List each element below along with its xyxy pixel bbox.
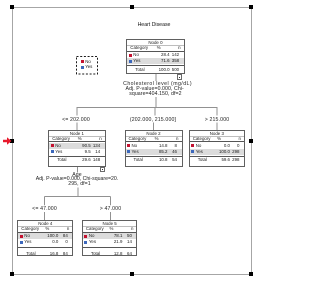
tree title: [114, 22, 194, 28]
wire: stub to node3 top: [216, 123, 218, 131]
handle middle-left: [10, 139, 14, 143]
wire: node1 drop: [77, 167, 79, 173]
branch label node1: [46, 117, 106, 123]
node 3: [189, 130, 245, 167]
wire: stub above label node2: [154, 108, 156, 116]
node 4: [17, 220, 73, 256]
split variable text: Age: [27, 173, 127, 187]
handle middle-right: [249, 139, 253, 143]
wire: stub above label node4: [44, 197, 46, 206]
wire: stub above label node1: [76, 108, 78, 116]
handle bottom-right: [249, 272, 253, 276]
node 0 collapse button: [177, 74, 183, 80]
handle top-right: [249, 5, 253, 9]
handle top-middle: [130, 5, 134, 9]
handle bottom-middle: [130, 272, 134, 276]
legend swatch No: [81, 60, 84, 63]
node 1 collapse button: [100, 167, 106, 173]
wire: stub to node1 top: [76, 123, 78, 131]
wire: stub above label node3: [216, 108, 218, 116]
legend swatch Yes: [81, 66, 84, 69]
wire: stub above label node5: [110, 197, 112, 206]
wire: stub to node5 top: [110, 212, 112, 221]
branch label node4: [15, 206, 75, 212]
wire: node0 drop: [155, 73, 157, 81]
node 0: [126, 39, 184, 74]
legend box: [76, 56, 98, 75]
wire: stub to node4 top: [44, 212, 46, 221]
wire: chol text to branch line: [155, 97, 157, 108]
branch label node2: [123, 117, 183, 123]
branch label node5: [81, 206, 141, 212]
wire: level2 horizontal: [45, 196, 111, 198]
handle bottom-left: [10, 272, 14, 276]
selection frame: [12, 7, 252, 275]
red output marker arrow: [0, 134, 14, 148]
wire: age text to branch line: [77, 188, 79, 198]
node 1: [48, 130, 106, 167]
handle top-left: [10, 5, 14, 9]
node 5: [82, 220, 138, 256]
split variable text: Cholesterol: [108, 82, 208, 87]
branch label node3: [187, 117, 247, 123]
wire: level1 horizontal: [77, 107, 218, 109]
node 2: [125, 130, 183, 167]
wire: stub to node2 top: [153, 123, 155, 131]
